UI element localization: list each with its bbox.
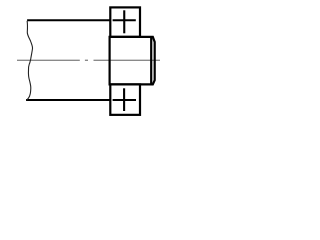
bearing symbol square (upper) (110, 7, 140, 36)
hub / shaft body outline with chamfered end (110, 37, 155, 85)
bearing cross vertical stroke (lower) (123, 88, 125, 111)
bearing cross vertical stroke (upper) (123, 10, 125, 33)
break line (freehand squiggle) (26, 21, 32, 101)
shaft bottom outline line (26, 99, 110, 101)
shaft top outline line (27, 19, 110, 21)
centerline (dash-dot axis) (17, 59, 160, 61)
bearing symbol square (lower) (110, 84, 140, 114)
bearing cross horizontal stroke (upper) (113, 19, 136, 21)
bearing cross horizontal stroke (lower) (113, 99, 136, 101)
chamfer edge line on hub end face (150, 37, 152, 85)
